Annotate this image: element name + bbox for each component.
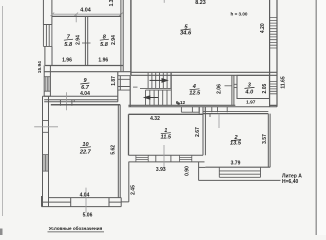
wall ticks room 1 bottom: [156, 155, 171, 162]
room 9 bottom walls: [44, 96, 118, 101]
door connectors room 9 / stairs: [118, 76, 130, 90]
corridor bottom line: [181, 111, 199, 113]
stairs down arrow: [147, 97, 158, 99]
leader line rooms 9/10: [66, 92, 68, 110]
room 2 top wall: [203, 111, 268, 113]
scan left edge: [2, 6, 4, 216]
window W3 east wall room 3: [270, 82, 277, 94]
svg-text:11.5: 11.5: [161, 135, 172, 141]
pointer tick 2.06: [225, 85, 232, 87]
svg-text:1.87: 1.87: [111, 76, 117, 86]
room 2 right wall: [268, 114, 270, 168]
chimney box top-left: [43, 0, 52, 25]
svg-text:1.96: 1.96: [62, 57, 72, 63]
svg-text:3.79: 3.79: [231, 161, 241, 167]
svg-text:1.96: 1.96: [98, 57, 108, 63]
window W1 west wall rooms 7: [43, 25, 52, 47]
dimension line 4.04 top: [52, 13, 121, 15]
svg-text:5.8: 5.8: [64, 42, 73, 48]
window W5 room 1: [136, 155, 148, 162]
svg-text:Н=6,40: Н=6,40: [282, 179, 298, 185]
leader 5.06: [85, 188, 87, 213]
bottom wall rooms 7/8: [45, 65, 123, 67]
window W6 room 1: [180, 155, 192, 162]
east outer wall: [270, 0, 277, 107]
0.90 drop line: [198, 162, 200, 181]
room 1 top wall: [129, 113, 204, 115]
svg-text:4.20: 4.20: [260, 23, 266, 33]
svg-text:2.94: 2.94: [75, 35, 81, 45]
svg-text:5.06: 5.06: [83, 213, 93, 219]
corridor lower top line: [128, 106, 277, 108]
leader under room 1: [163, 145, 165, 169]
tick marks room 9 bottom: [60, 100, 74, 102]
svg-text:4.04: 4.04: [80, 192, 90, 198]
svg-text:34.6: 34.6: [180, 30, 192, 36]
svg-text:5.62: 5.62: [111, 145, 117, 155]
svg-text:2.94: 2.94: [111, 35, 117, 45]
step to 2.45 line: [121, 162, 129, 202]
top wall rooms 7/8: [52, 15, 121, 17]
window W4 west wall room 9: [44, 77, 50, 92]
junction block walls: [199, 107, 205, 114]
scan right edge: [315, 0, 317, 235]
door tick stairs: [133, 86, 138, 88]
room 1 left wall: [128, 114, 130, 155]
svg-text:5.8: 5.8: [100, 42, 109, 48]
svg-text:2.67: 2.67: [195, 127, 201, 137]
steps below room 2: [219, 167, 260, 177]
svg-text:4.04: 4.04: [80, 91, 90, 97]
svg-text:11.65: 11.65: [281, 76, 287, 88]
west wall segment below window: [45, 46, 52, 65]
svg-text:15.94: 15.94: [37, 61, 43, 73]
dimension tick vertical: [75, 14, 77, 22]
bottom wall of room 5: [131, 72, 277, 75]
dimension tick 8.23: [163, 0, 165, 3]
door room 4 to room 3: [234, 84, 237, 87]
room 2 bottom wall: [205, 166, 270, 168]
door jamb room 2: [209, 114, 211, 117]
svg-text:4.04: 4.04: [80, 8, 91, 14]
stair block / room 4 bottom wall: [128, 104, 235, 106]
wall between rooms 7 and 8: [85, 16, 87, 65]
room 10 west wall: [43, 96, 51, 206]
stair block left wall: [129, 75, 131, 107]
stairs landing line: [140, 87, 171, 89]
svg-text:2.06: 2.06: [216, 84, 222, 94]
room 10 bottom outer wall: [42, 196, 122, 207]
leader below room 2 top wall: [218, 114, 220, 128]
newel dot: [177, 102, 180, 105]
ground line to Liter A: [199, 179, 281, 181]
room 10 top wall: [51, 104, 120, 106]
room 10 right wall: [118, 105, 120, 198]
corridor door jambs: [181, 107, 227, 112]
svg-text:8.23: 8.23: [195, 0, 206, 6]
east wall of rooms 7/8: [121, 0, 123, 71]
scan bottom-left speck: [0, 229, 3, 236]
room 4 right wall: [232, 75, 234, 105]
svg-text:0.90: 0.90: [184, 166, 190, 176]
svg-text:12.5: 12.5: [189, 90, 201, 96]
pointer tick 2.94: [82, 42, 91, 44]
svg-text:3.93: 3.93: [156, 167, 166, 173]
svg-text:6.12: 6.12: [176, 100, 186, 106]
wall between rooms 1 and 2: [203, 114, 205, 156]
room 9 west wall: [44, 66, 50, 97]
room 9 right wall: [117, 72, 119, 102]
svg-text:Условные обозначения: Условные обозначения: [49, 225, 103, 231]
svg-text:2.05: 2.05: [262, 84, 268, 94]
window W8 room 10: [43, 155, 49, 172]
svg-text:3.57: 3.57: [262, 134, 268, 144]
svg-text:22.7: 22.7: [79, 150, 92, 156]
stairs lower flight risers: [146, 73, 172, 106]
svg-text:1.97: 1.97: [246, 99, 256, 105]
svg-text:1.31: 1.31: [109, 0, 115, 6]
room 3 box: [237, 75, 269, 98]
window W7 room 10: [43, 120, 49, 132]
svg-text:13.5: 13.5: [230, 141, 242, 147]
svg-text:h = 3.00: h = 3.00: [231, 11, 248, 16]
svg-text:4.0: 4.0: [244, 89, 254, 95]
svg-text:2.45: 2.45: [131, 185, 137, 195]
stairs upper flight risers: [148, 73, 171, 89]
room 10 bottom inner: [49, 197, 122, 199]
stove verticals: [60, 100, 72, 106]
svg-text:4.32: 4.32: [150, 116, 160, 122]
window tick: [34, 126, 58, 128]
room 1 bottom wall band: [129, 155, 205, 162]
connector below wall 1/2: [199, 166, 206, 168]
room 9 top wall: [44, 71, 131, 73]
stairs up arrow: [150, 79, 163, 81]
window W2 east wall room 5: [270, 18, 277, 48]
west wall of room 5: [130, 0, 132, 75]
